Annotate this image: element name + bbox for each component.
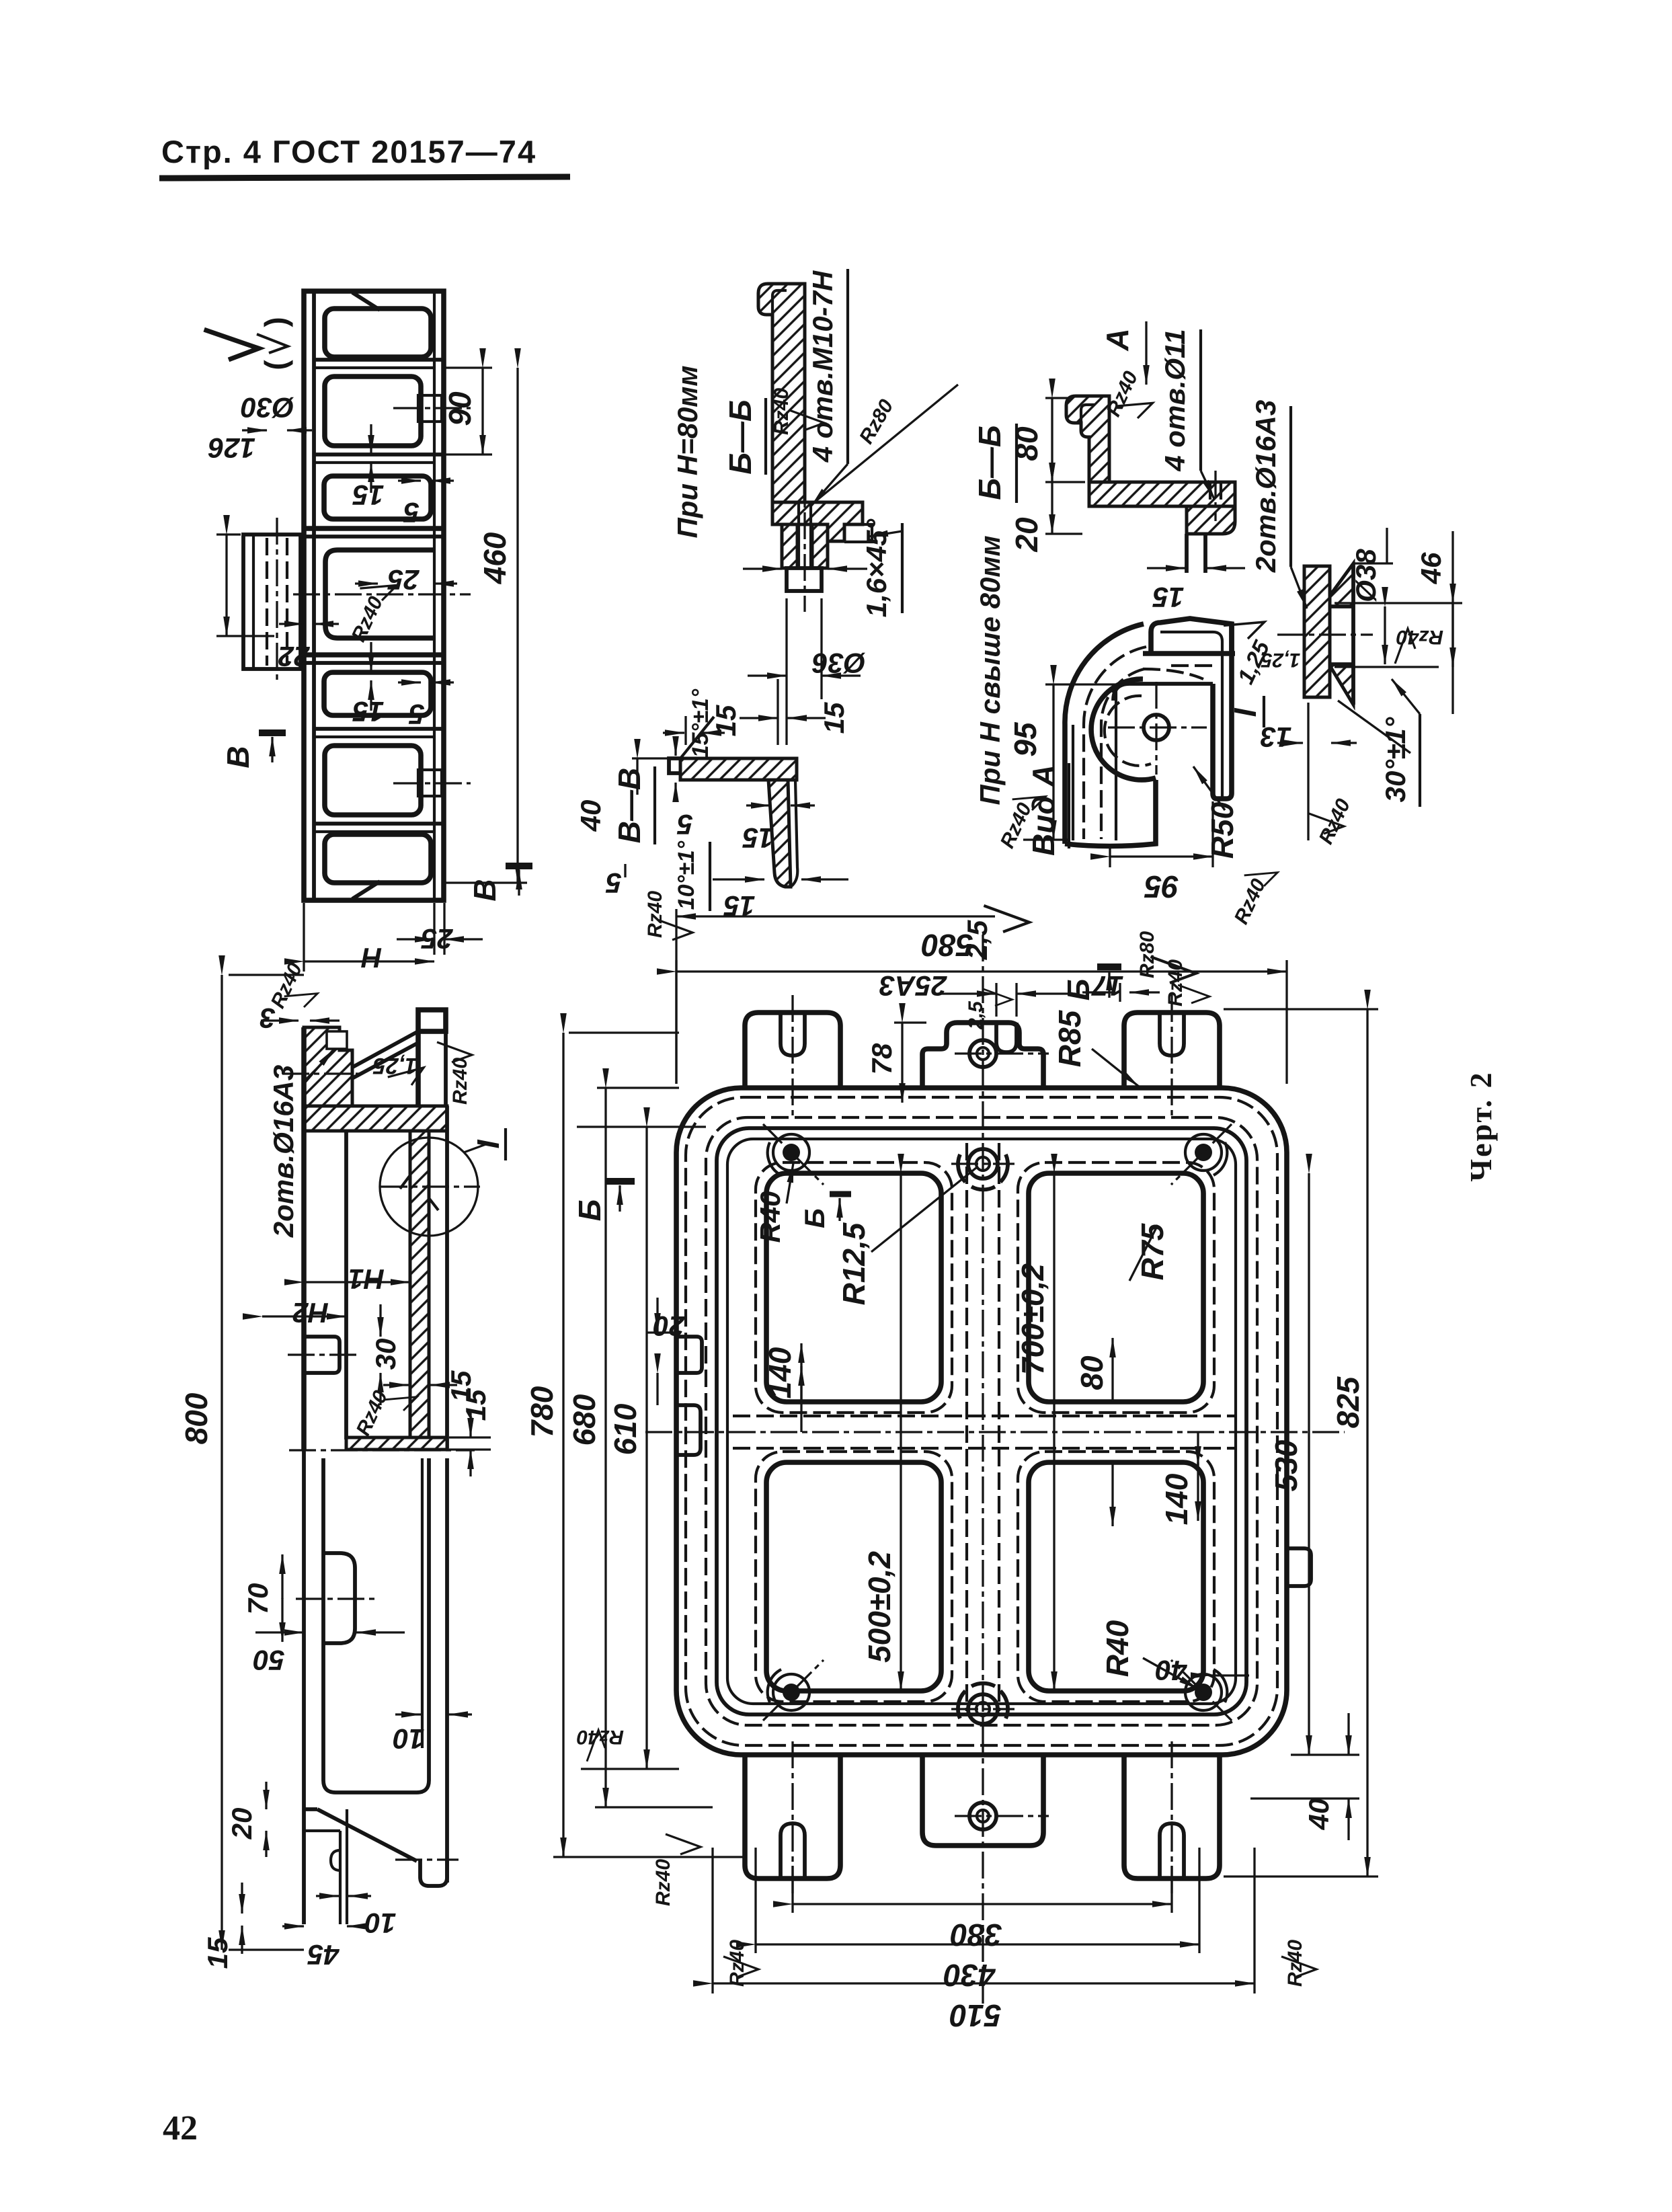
v2 dim 10 foot pad (316, 1895, 339, 1897)
view1 window w6 (325, 834, 431, 883)
top ear left slot centerline (791, 995, 793, 1116)
bottom ear left slot (781, 1823, 805, 1879)
rib hidden edges horizontal (733, 1415, 1237, 1417)
rib hidden edges vertical (965, 1143, 968, 1711)
svg-text:140: 140 (762, 1347, 797, 1398)
dim 25 channel (355, 582, 378, 584)
roughness 2,5 small (982, 989, 1012, 1006)
v2 S-bump left wall (323, 1553, 355, 1643)
v5 Rz40 check (1115, 391, 1156, 424)
view1 rib D (304, 652, 444, 658)
svg-text:17: 17 (1091, 970, 1123, 1002)
view1 U-channel middle (325, 550, 434, 638)
svg-text:510: 510 (949, 1998, 1001, 2033)
v2 wall top notch (327, 1031, 347, 1049)
v2 Rz40 mid left (384, 1386, 420, 1416)
Rz40 bottom left vertical (723, 1957, 758, 1977)
v6 dim 95 horizontal (1109, 848, 1111, 867)
v2 dim 3 top (261, 1019, 298, 1021)
top ear right slot centerline (1170, 995, 1172, 1116)
v3 flange hatched (772, 502, 863, 541)
v2 foot slope (304, 1807, 317, 1811)
window TL hidden offset (756, 1162, 952, 1413)
view1 w6 chamfer (352, 881, 380, 899)
view1 window w5 (325, 746, 421, 815)
v6 right cap (1213, 623, 1232, 799)
plan horizontal centerline (645, 1431, 1345, 1433)
svg-text:В—В: В—В (612, 768, 647, 843)
svg-text:380: 380 (950, 1918, 1002, 1952)
svg-text:Rz40: Rz40 (1396, 626, 1443, 648)
view1 channel centerline (293, 593, 471, 595)
v2 dim 20 foot (265, 1782, 267, 1809)
dim 90 view1 (445, 366, 492, 368)
svg-text:700±0,2: 700±0,2 (1015, 1263, 1050, 1375)
svg-text:95: 95 (1144, 869, 1179, 904)
v7 dim 46 (1335, 602, 1462, 604)
corner boss TL (783, 1144, 800, 1161)
v3 dim lower arrows (785, 598, 787, 699)
v4 flange left step (669, 758, 680, 773)
v3 vertical bar hatched (758, 284, 805, 502)
svg-text:R40: R40 (754, 1191, 786, 1242)
dim H below view1 (303, 903, 305, 972)
v7 wall hatched (1304, 566, 1330, 697)
label R85 leader (1092, 1049, 1139, 1087)
v6 dim 95 vertical (1045, 683, 1127, 685)
svg-text:Rz40: Rz40 (652, 1859, 674, 1906)
svg-text:10: 10 (365, 1907, 397, 1939)
v5 bar and hook hatched (1066, 396, 1109, 482)
dim 15 В-В foot (713, 878, 764, 880)
plan outer outline (676, 1088, 1287, 1755)
v6 inner bend (1113, 684, 1129, 701)
dim 5 view1 upper (398, 479, 421, 481)
view1 ear hole hidden lines (266, 538, 268, 666)
v3 flange right step (844, 524, 872, 542)
label R12,5 leader to circle (871, 1168, 976, 1252)
svg-text:При Н=80мм: При Н=80мм (672, 366, 703, 539)
v7 centerline (1277, 633, 1373, 635)
svg-text:Ø38: Ø38 (1350, 549, 1382, 602)
v6 top cap inner lip (1160, 632, 1222, 664)
svg-text:25А3: 25А3 (879, 970, 947, 1002)
corner boss BL (783, 1684, 800, 1701)
svg-text:I: I (471, 1139, 506, 1148)
window BR hidden offset (1018, 1452, 1214, 1702)
svg-text:Rz40: Rz40 (1315, 795, 1355, 848)
svg-text:25: 25 (421, 923, 453, 955)
svg-text:Rz40: Rz40 (1103, 368, 1143, 420)
v7 Rz40 lower check (1309, 814, 1344, 834)
v2 detail wall step inside circle (400, 1175, 410, 1189)
svg-text:460: 460 (477, 532, 512, 584)
v4 dim 15 top arrows (684, 716, 686, 745)
svg-text:При Н свыше 80мм: При Н свыше 80мм (974, 535, 1006, 805)
svg-text:Rz40: Rz40 (352, 1387, 393, 1439)
v6 label R50 (1193, 766, 1225, 810)
hole circle bottom tab (969, 1803, 996, 1829)
svg-text:95: 95 (1008, 721, 1043, 757)
view1 window w1 (325, 309, 431, 357)
v2 dim 50 (255, 1631, 304, 1633)
window BL (766, 1462, 941, 1691)
check mark 1 (204, 329, 259, 360)
svg-text:R50: R50 (1205, 801, 1240, 859)
v2 foot pad right (420, 1860, 447, 1886)
top ear right slot (1160, 1013, 1184, 1056)
dim 17 right ear (1119, 983, 1121, 1002)
svg-text:2отв.Ø16А3: 2отв.Ø16А3 (268, 1065, 299, 1238)
svg-text:15: 15 (352, 479, 384, 511)
svg-text:Rz40: Rz40 (644, 891, 666, 938)
svg-text:4 отв.Ø11: 4 отв.Ø11 (1159, 329, 1191, 471)
view1 window w4 (324, 672, 431, 715)
svg-text:430: 430 (943, 1958, 996, 1993)
svg-text:(: ( (258, 360, 293, 370)
dim 140 right bottom (1197, 1432, 1199, 1466)
svg-text:Б: Б (572, 1199, 607, 1222)
plan hidden line 2 (706, 1117, 1257, 1725)
bottom ear right slot (1160, 1823, 1184, 1879)
v2 left wall top (304, 1027, 352, 1106)
Rz40 bottom left of plan (666, 1834, 701, 1854)
v4 dim 5 left (674, 783, 676, 802)
svg-text:3: 3 (260, 1002, 275, 1034)
v7 Rz40 check (1395, 629, 1415, 664)
svg-text:20: 20 (653, 1310, 686, 1342)
dim 15 view1 upper (370, 424, 372, 455)
dim 25 below view1 (433, 903, 435, 955)
dim 380 bottom (791, 1866, 793, 1913)
v6 outer arc (1065, 624, 1144, 844)
svg-text:Rz40: Rz40 (1230, 875, 1271, 928)
v6 top leg edges (1143, 651, 1235, 656)
bottom ear right slot centerline (1170, 1741, 1172, 1897)
svg-text:50: 50 (253, 1645, 285, 1676)
v2 detail circle I (380, 1138, 478, 1236)
svg-text:30°±1°: 30°±1° (1380, 716, 1411, 802)
plan hidden line 1 (686, 1097, 1277, 1745)
svg-text:70: 70 (242, 1583, 274, 1615)
v4 flange hatched (680, 758, 797, 780)
dim 610 left of plan (577, 1125, 706, 1128)
svg-text:90: 90 (442, 391, 477, 426)
svg-text:Ø30: Ø30 (241, 392, 294, 424)
svg-text:R12,5: R12,5 (836, 1222, 871, 1305)
label R75 leader (1129, 1225, 1158, 1281)
v2 foot outer right (445, 1458, 449, 1883)
svg-text:2,5: 2,5 (961, 920, 993, 960)
v3 dim 15 below (777, 679, 779, 745)
svg-text:Б—Б: Б—Б (972, 425, 1007, 500)
dim f30 ear hole (242, 429, 267, 431)
dim 580 top (675, 960, 677, 1084)
svg-text:Rz40: Rz40 (726, 1940, 748, 1987)
svg-text:I: I (1228, 707, 1263, 717)
bottom ear left slot centerline (791, 1741, 793, 1897)
v6 top cap block (1151, 619, 1232, 654)
dim 40 right lower (1291, 1753, 1359, 1755)
view1 right inner line (433, 291, 436, 900)
top ear left (745, 1013, 840, 1088)
top ear left slot (781, 1013, 805, 1056)
svg-text:Б: Б (799, 1208, 830, 1228)
dim 530 right (1308, 1173, 1310, 1755)
svg-text:80: 80 (1074, 1355, 1109, 1390)
v2 dim 800 (229, 974, 304, 976)
svg-text:Н2: Н2 (292, 1297, 329, 1329)
svg-text:15: 15 (742, 822, 774, 854)
window BR (1029, 1462, 1203, 1691)
svg-text:500±0,2: 500±0,2 (862, 1551, 897, 1663)
svg-text:В: В (467, 879, 502, 901)
label R40 top left boss (787, 1163, 793, 1203)
dim 680 left of plan (597, 1087, 679, 1089)
v2 dim 70 (281, 1554, 283, 1599)
svg-text:4 отв.М10-7Н: 4 отв.М10-7Н (807, 270, 838, 463)
svg-text:Б: Б (1061, 979, 1096, 1001)
section mark B bottom (506, 863, 532, 869)
v2 top tab (418, 1010, 446, 1031)
v3 thread lines (797, 502, 800, 568)
svg-text:Rz80: Rz80 (1136, 931, 1158, 978)
svg-text:530: 530 (1269, 1439, 1304, 1491)
svg-text:42: 42 (163, 2109, 198, 2147)
svg-text:10°±1°: 10°±1° (674, 840, 699, 910)
svg-text:15: 15 (710, 705, 742, 736)
v2 gusset diagonals (344, 1031, 418, 1072)
label R40 bottom right boss (1143, 1658, 1198, 1689)
svg-text:Rz40: Rz40 (1284, 1940, 1306, 1987)
v2 left bump 30 (304, 1337, 340, 1373)
view1 window w2 (325, 377, 421, 446)
svg-text:610: 610 (608, 1403, 643, 1455)
svg-text:Н1: Н1 (348, 1263, 385, 1295)
dim 126 ear (216, 533, 241, 535)
v2 dim 15 bottom flange (469, 1411, 471, 1437)
svg-text:800: 800 (179, 1392, 214, 1444)
right edge tab (1287, 1548, 1311, 1586)
view1 left ear tab (243, 535, 301, 669)
dim 15 top left (675, 909, 677, 1084)
v2 parting centerline (289, 1449, 475, 1451)
v4 draft diagonal (680, 717, 714, 758)
v3 stud below boss (787, 568, 822, 591)
v6 boss (1091, 679, 1156, 780)
v2 top notch centerline (282, 1072, 360, 1074)
v4 wall foot arc (791, 780, 797, 887)
v2 right wall hatched (410, 1131, 429, 1439)
section mark B left (605, 1178, 635, 1185)
dim 780 left of plan (569, 1031, 679, 1033)
v4 dim 5 bottom left (624, 864, 626, 877)
v4 wall hatched tapered (768, 780, 791, 887)
window TL (766, 1173, 941, 1402)
view1 outer outline (304, 291, 444, 900)
svg-text:13: 13 (1261, 721, 1292, 753)
dim 15 view1 lower (370, 642, 372, 672)
v2 Rz40 top left (284, 983, 321, 1013)
svg-text:10: 10 (393, 1723, 425, 1755)
v7 funnel cone (1330, 563, 1353, 606)
v2 dim 10 right wall (395, 1713, 421, 1715)
svg-text:15°±1°: 15°±1° (688, 688, 713, 758)
dim 825 right (1224, 1008, 1378, 1010)
svg-text:А: А (1100, 328, 1135, 351)
svg-text:В: В (221, 746, 255, 768)
corner boss BR (1195, 1684, 1212, 1701)
v7 dim f38 (1353, 562, 1393, 564)
svg-text:5: 5 (409, 699, 425, 730)
top ear right (1124, 1013, 1220, 1088)
svg-text:825: 825 (1330, 1376, 1365, 1428)
svg-text:40: 40 (1156, 1655, 1188, 1686)
v6 Rz40 left (1012, 786, 1049, 816)
view1 rib E (314, 727, 444, 731)
v5 view arrow A (1145, 321, 1147, 385)
plan inner wall edge (717, 1128, 1246, 1714)
svg-text:20: 20 (226, 1808, 257, 1840)
v4 dim 40 left (632, 757, 669, 759)
svg-text:5: 5 (606, 867, 622, 899)
v6 dashed wall arcs (1084, 647, 1146, 839)
dim 25A3 slot (995, 983, 997, 1017)
dim 140 left top (800, 1343, 802, 1402)
top middle tab (922, 1023, 1043, 1088)
dim 430 bottom (754, 1848, 756, 1953)
svg-text:R75: R75 (1135, 1222, 1170, 1280)
view1 rib A (314, 358, 444, 362)
view1 left inner wall (312, 291, 316, 900)
dim 22 (279, 623, 304, 625)
bottom middle tab (922, 1755, 1043, 1846)
svg-text:): ) (258, 317, 293, 327)
view1 tab boss lower (418, 770, 442, 796)
v2 dim 45 (282, 1925, 304, 1927)
v5 foot stub (1187, 534, 1205, 573)
svg-text:15: 15 (818, 702, 850, 734)
v6 label 1,25 top right (1224, 609, 1268, 645)
bottom ear left (745, 1755, 840, 1879)
svg-text:15: 15 (352, 696, 384, 727)
v2 dim H1 (304, 1281, 410, 1283)
view1 tab boss upper (418, 395, 442, 422)
v2 foot left lines (302, 1450, 306, 1924)
v3 Rz40 check (789, 410, 824, 430)
dim 40 bottom right (1210, 1674, 1249, 1676)
v2 left wall lines (301, 1027, 307, 1450)
svg-text:Ø36: Ø36 (812, 647, 866, 679)
dim 460 view1 (516, 368, 518, 883)
svg-text:Rz40: Rz40 (1164, 959, 1187, 1006)
svg-text:780: 780 (524, 1386, 559, 1437)
v3 dim f36 arrows (743, 567, 782, 569)
v5 dim 80 (1045, 397, 1072, 399)
v4 dim 15 right (746, 804, 770, 806)
v2 dim 15 wall (383, 1384, 409, 1386)
Rz80 check top right (1150, 957, 1196, 983)
section mark B top (1097, 963, 1121, 970)
left edge slot tab upper (676, 1337, 702, 1373)
v2 top flange hatched (304, 1106, 447, 1131)
svg-text:30: 30 (370, 1339, 401, 1370)
hole circle inner bottom (968, 1694, 998, 1724)
v2 dim H2 (262, 1315, 346, 1317)
v6 Rz40 bottom right (1244, 862, 1281, 892)
v2 Rz40 right top (437, 1042, 472, 1062)
view1 window w3 (324, 476, 431, 519)
Rz40 top left of plan (658, 920, 692, 940)
v2 bottom flange hatched (346, 1437, 447, 1450)
check mark 2 in parens (257, 317, 293, 370)
svg-text:R85: R85 (1052, 1009, 1087, 1067)
view1 rib F (314, 822, 444, 826)
header underline (159, 177, 570, 178)
v5 foot hole (1209, 482, 1211, 506)
v2 foot notch semicircle (331, 1850, 340, 1870)
svg-text:46: 46 (1415, 552, 1447, 584)
plan vertical centerline (982, 935, 984, 2007)
svg-text:Н: Н (360, 942, 382, 974)
hole circle inner top (968, 1149, 998, 1179)
Rz40 channel (360, 574, 400, 606)
svg-text:15: 15 (460, 1389, 491, 1421)
svg-text:15: 15 (723, 890, 755, 922)
v5 dim 15 stub (1147, 567, 1185, 569)
window TR hidden offset (1018, 1162, 1214, 1413)
svg-text:Rz40: Rz40 (449, 1058, 471, 1105)
dim 700±0,2 (1053, 1173, 1055, 1691)
svg-text:5: 5 (677, 809, 693, 840)
svg-text:40: 40 (575, 800, 606, 832)
v2 dim 30 (379, 1304, 381, 1337)
dim 500±0,2 (900, 1173, 902, 1691)
dim 78 middle tab (894, 1021, 926, 1023)
v2 dim 15 foot (241, 1883, 243, 1913)
svg-text:140: 140 (1159, 1473, 1194, 1525)
svg-text:Черт. 2: Черт. 2 (1464, 1070, 1498, 1181)
svg-text:45: 45 (307, 1939, 340, 1971)
svg-text:680: 680 (567, 1394, 602, 1446)
dim 510 bottom (711, 1848, 713, 1993)
svg-text:15: 15 (202, 1937, 233, 1969)
v2 foot cavity (323, 1458, 429, 1792)
view1 w1 chamfer (352, 292, 380, 310)
v7 funnel cylinder lines (1330, 604, 1353, 608)
svg-text:Стр. 4 ГОСТ 20157—74: Стр. 4 ГОСТ 20157—74 (161, 134, 536, 169)
section mark B left (259, 729, 286, 736)
svg-text:5: 5 (403, 497, 420, 528)
window BL hidden offset (756, 1452, 952, 1702)
view1 ear centerline (276, 518, 278, 682)
dim 5 view1 lower (398, 681, 421, 683)
corner boss TR (1195, 1144, 1212, 1161)
v5 flange hatched (1089, 482, 1235, 506)
v7 dim 13 (1307, 703, 1309, 840)
v5 hook notch (1081, 405, 1094, 423)
v6 bottom leg cap (1065, 780, 1156, 846)
svg-text:2отв.Ø16А3: 2отв.Ø16А3 (1250, 400, 1281, 573)
left edge recess lower (676, 1405, 701, 1455)
v3 boss walls hatched (782, 524, 797, 568)
Rz40 check small right (1178, 985, 1209, 1003)
svg-text:Rz40: Rz40 (770, 388, 793, 435)
v2 outer right skin (445, 1106, 449, 1450)
bottom ear right (1124, 1755, 1220, 1879)
svg-text:40: 40 (1303, 1799, 1335, 1831)
svg-text:80: 80 (1009, 426, 1044, 461)
